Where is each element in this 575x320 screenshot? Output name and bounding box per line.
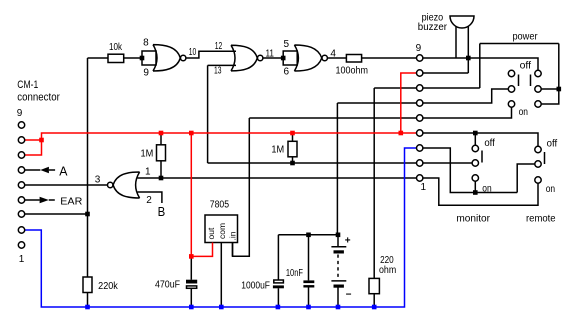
svg-text:1000uF: 1000uF xyxy=(241,280,270,291)
svg-text:1M: 1M xyxy=(141,149,154,160)
svg-text:11: 11 xyxy=(265,49,274,60)
svg-text:com: com xyxy=(217,223,227,239)
svg-text:EAR: EAR xyxy=(60,197,82,208)
svg-text:1: 1 xyxy=(19,254,25,265)
svg-text:4: 4 xyxy=(330,48,336,59)
svg-text:out: out xyxy=(206,227,216,239)
svg-text:9: 9 xyxy=(416,43,422,54)
svg-text:1M: 1M xyxy=(271,145,284,156)
svg-text:2: 2 xyxy=(146,195,152,206)
svg-text:monitor: monitor xyxy=(456,214,490,225)
svg-text:12: 12 xyxy=(215,41,223,52)
svg-text:power: power xyxy=(512,31,538,42)
svg-text:10: 10 xyxy=(189,47,197,58)
svg-text:+: + xyxy=(345,236,351,247)
svg-text:B: B xyxy=(158,204,166,219)
svg-text:off: off xyxy=(547,139,558,150)
svg-text:buzzer: buzzer xyxy=(418,22,448,33)
svg-text:6: 6 xyxy=(284,67,290,78)
svg-text:A: A xyxy=(59,163,68,178)
svg-text:8: 8 xyxy=(143,38,149,49)
svg-text:connector: connector xyxy=(17,91,60,103)
svg-text:.in: .in xyxy=(228,231,238,240)
svg-text:on: on xyxy=(519,107,528,118)
svg-text:9: 9 xyxy=(143,67,149,78)
svg-text:remote: remote xyxy=(526,214,556,225)
svg-text:off: off xyxy=(520,61,532,72)
svg-text:ohm: ohm xyxy=(379,265,396,276)
svg-text:470uF: 470uF xyxy=(155,280,180,291)
svg-text:10nF: 10nF xyxy=(286,268,303,279)
svg-text:−: − xyxy=(346,290,352,301)
svg-text:9: 9 xyxy=(17,108,23,119)
svg-text:on: on xyxy=(546,184,555,195)
svg-text:1: 1 xyxy=(145,167,151,178)
svg-text:3: 3 xyxy=(95,174,101,185)
svg-text:1: 1 xyxy=(421,182,427,193)
svg-text:off: off xyxy=(484,138,495,149)
svg-text:7805: 7805 xyxy=(210,200,230,211)
svg-text:on: on xyxy=(482,184,491,195)
svg-text:220k: 220k xyxy=(98,281,119,292)
svg-text:10k: 10k xyxy=(109,42,123,53)
svg-text:13: 13 xyxy=(214,66,222,77)
svg-text:100ohm: 100ohm xyxy=(336,65,369,76)
svg-text:CM-1: CM-1 xyxy=(17,79,38,91)
svg-text:5: 5 xyxy=(284,39,290,50)
